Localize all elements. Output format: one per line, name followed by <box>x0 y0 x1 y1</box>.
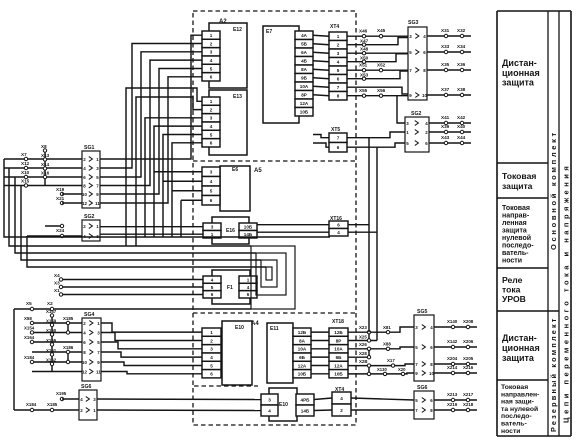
connector SG2 (right) <box>405 111 429 152</box>
svg-text:10: 10 <box>82 192 87 197</box>
svg-text:9Б: 9Б <box>301 76 308 81</box>
wires E7 to XT5 <box>313 135 329 148</box>
svg-text:Х45: Х45 <box>377 28 386 33</box>
svg-text:ная защи-: ная защи- <box>501 399 534 406</box>
vertical bus wire XT5/XT16 to SG5 row1 <box>368 138 370 333</box>
svg-text:Х52: Х52 <box>377 63 386 68</box>
svg-text:Х38: Х38 <box>457 87 466 92</box>
svg-text:Х16: Х16 <box>41 171 50 176</box>
wire branch X55 down to SG2 <box>397 96 405 123</box>
svg-text:ХТ5: ХТ5 <box>331 127 340 133</box>
left vertical wire X5 down to SG6 <box>13 309 15 410</box>
svg-text:Х24: Х24 <box>56 228 65 233</box>
svg-text:6: 6 <box>337 77 340 82</box>
svg-text:Х33: Х33 <box>441 44 450 49</box>
relay F1 <box>212 270 250 304</box>
svg-text:10: 10 <box>429 371 434 376</box>
svg-text:3: 3 <box>210 347 213 352</box>
table text: zero-sequence directional protection (reserve) <box>501 384 539 435</box>
wires XT4 to SG3 with terminals X45..X56 <box>347 28 408 97</box>
svg-text:Х214: Х214 <box>447 365 458 370</box>
svg-text:6: 6 <box>210 198 213 203</box>
svg-text:8Р: 8Р <box>336 338 342 343</box>
input wires to F1 terminals X4 X3 X1 <box>54 273 203 296</box>
terminal block XT4 (bottom) <box>335 387 344 393</box>
svg-text:10А: 10А <box>334 347 343 352</box>
svg-text:2: 2 <box>210 41 213 46</box>
svg-text:Е13: Е13 <box>233 94 242 100</box>
wires SG6 to external terminals X217 X218 <box>434 392 477 412</box>
svg-text:Х184: Х184 <box>26 402 37 407</box>
svg-text:Х7: Х7 <box>21 152 27 157</box>
svg-text:Х2: Х2 <box>47 301 53 306</box>
svg-text:Е11: Е11 <box>270 326 279 332</box>
right cells of E10 bottom <box>296 394 314 416</box>
svg-text:Х55: Х55 <box>359 88 368 93</box>
svg-text:1: 1 <box>210 330 213 335</box>
svg-text:Х140: Х140 <box>447 319 458 324</box>
svg-text:Е6: Е6 <box>232 167 238 173</box>
wires XT18 to SG5 with terminals <box>348 325 414 376</box>
svg-text:2: 2 <box>340 408 343 413</box>
module E10 (bottom) <box>269 388 297 421</box>
wire E16 to XT16 row1 <box>257 224 329 226</box>
svg-text:Е12: Е12 <box>233 27 242 33</box>
svg-text:Резервный комплект: Резервный комплект <box>549 316 558 432</box>
svg-text:4: 4 <box>210 58 213 63</box>
svg-text:Х47: Х47 <box>360 39 369 44</box>
module E6 <box>220 166 250 211</box>
svg-text:4: 4 <box>340 396 343 401</box>
wire SG6 left to E10 bottom row2 <box>97 409 261 412</box>
cells of XT4 bottom <box>332 392 351 416</box>
svg-text:5Б: 5Б <box>301 42 308 47</box>
svg-text:Х58: Х58 <box>24 316 32 321</box>
connector SG6 (right) <box>414 385 434 419</box>
svg-text:Х23: Х23 <box>359 325 367 330</box>
vertical bus wire XT5/XT16 to SG5 row2 <box>376 147 378 340</box>
svg-text:12А: 12А <box>334 363 343 368</box>
svg-text:SG5: SG5 <box>417 309 427 315</box>
wire SG6 left to E10 bottom row1 <box>97 398 261 401</box>
connector SG3 <box>408 20 427 100</box>
svg-text:Х40: Х40 <box>457 124 466 129</box>
svg-text:3: 3 <box>210 170 213 175</box>
input wires to SG4 with terminals X58..X162 <box>24 309 82 372</box>
svg-text:3: 3 <box>210 116 213 121</box>
svg-text:нулевой: нулевой <box>502 234 531 242</box>
svg-text:Х204: Х204 <box>447 356 458 361</box>
svg-text:Х46: Х46 <box>359 29 368 34</box>
svg-text:4РБ: 4РБ <box>301 397 311 402</box>
svg-text:Х81: Х81 <box>383 325 391 330</box>
svg-text:ватель-: ватель- <box>502 250 529 257</box>
svg-text:6: 6 <box>337 223 340 228</box>
svg-text:защита: защита <box>502 353 535 363</box>
input wires to SG1 with terminals X7..X16 <box>4 144 82 187</box>
svg-text:5: 5 <box>210 363 213 368</box>
svg-text:11: 11 <box>96 369 101 374</box>
svg-text:Х14: Х14 <box>41 162 50 167</box>
svg-text:1: 1 <box>247 278 250 283</box>
svg-text:2: 2 <box>210 107 213 112</box>
svg-text:Х13: Х13 <box>41 153 50 158</box>
svg-text:1: 1 <box>210 33 213 38</box>
svg-text:6Б: 6Б <box>299 355 306 360</box>
svg-text:4: 4 <box>337 60 340 65</box>
svg-text:4: 4 <box>247 285 250 290</box>
svg-text:Х48: Х48 <box>360 47 369 52</box>
nested loop wires around F1 <box>251 246 295 309</box>
svg-text:Х50: Х50 <box>360 56 369 61</box>
svg-text:Х184: Х184 <box>24 355 35 360</box>
left loop wire 5 <box>27 236 266 267</box>
cabinet enclosure (dashed) <box>193 11 356 425</box>
table text: distance protection (main) <box>502 58 540 88</box>
svg-text:Х35: Х35 <box>441 62 450 67</box>
svg-text:Х44: Х44 <box>457 135 466 140</box>
svg-text:защита: защита <box>502 78 535 88</box>
terminal stack of E10 <box>202 328 221 378</box>
svg-text:Е10: Е10 <box>235 325 244 331</box>
left cells of E10 bottom <box>261 394 278 416</box>
connector SG1 <box>82 145 100 208</box>
wire bundle SG1 to E12 <box>100 35 202 203</box>
svg-text:Х12: Х12 <box>21 161 30 166</box>
svg-text:SG2: SG2 <box>84 214 94 220</box>
connector SG4 <box>82 312 101 381</box>
svg-text:Х51: Х51 <box>359 63 368 68</box>
module E12 <box>209 23 247 88</box>
table text: current protection <box>502 171 536 191</box>
svg-text:1: 1 <box>210 99 213 104</box>
svg-text:Х3: Х3 <box>54 281 60 286</box>
svg-text:10А: 10А <box>300 84 309 89</box>
svg-text:5: 5 <box>210 189 213 194</box>
terminal block XT16 <box>330 216 342 222</box>
table text: zero-sequence directional current protection (main) <box>502 205 534 265</box>
svg-text:Токовая: Токовая <box>502 171 536 181</box>
svg-text:8Р: 8Р <box>301 93 307 98</box>
svg-text:Х19: Х19 <box>56 187 65 192</box>
svg-text:4: 4 <box>211 278 214 283</box>
svg-text:12Б: 12Б <box>334 330 343 335</box>
svg-text:Х37: Х37 <box>441 87 450 92</box>
svg-text:3: 3 <box>211 225 214 230</box>
svg-text:Х159: Х159 <box>46 319 57 324</box>
svg-text:ности: ности <box>501 428 520 435</box>
table text: distance protection (reserve) <box>502 333 540 363</box>
svg-text:5: 5 <box>210 132 213 137</box>
wires SG2 to external terminals X39..X44 <box>429 115 471 145</box>
svg-text:4: 4 <box>210 355 213 360</box>
input wire to SG2 left with terminal X24 <box>27 224 82 237</box>
svg-text:Токовая: Токовая <box>501 384 528 391</box>
svg-text:ватель-: ватель- <box>501 421 527 428</box>
svg-text:12: 12 <box>82 369 87 374</box>
svg-text:6: 6 <box>210 372 213 377</box>
svg-text:Х10: Х10 <box>21 170 30 175</box>
svg-text:Х15: Х15 <box>21 179 30 184</box>
terminal stack of E11 <box>293 328 311 378</box>
svg-text:Е16: Е16 <box>226 228 235 234</box>
svg-text:ленная: ленная <box>502 220 527 227</box>
svg-text:Основной комплект: Основной комплект <box>549 130 558 250</box>
svg-text:3: 3 <box>337 51 340 56</box>
svg-text:7: 7 <box>337 85 340 90</box>
svg-text:направ-: направ- <box>502 213 530 220</box>
svg-text:Х26: Х26 <box>359 342 367 347</box>
svg-text:12: 12 <box>82 201 87 206</box>
svg-text:Х219: Х219 <box>447 402 458 407</box>
svg-text:6: 6 <box>211 292 214 297</box>
svg-text:6: 6 <box>337 145 340 150</box>
right cells of E16 <box>239 223 257 238</box>
svg-text:Х160: Х160 <box>46 328 57 333</box>
svg-text:10: 10 <box>82 360 87 365</box>
left cells of F1 <box>203 276 221 298</box>
wire XT5-6 to SG2 <box>347 143 405 147</box>
left loop wire 3 <box>15 177 256 253</box>
svg-text:4Б: 4Б <box>301 59 308 64</box>
svg-text:Х216: Х216 <box>463 365 474 370</box>
svg-text:Х2В: Х2В <box>359 359 368 364</box>
svg-text:последо-: последо- <box>502 243 534 250</box>
svg-text:Х8: Х8 <box>41 144 47 149</box>
svg-text:1: 1 <box>337 34 340 39</box>
inner dashed divider of A4 <box>194 385 258 387</box>
input wire terminals X184 X185 to SG6 <box>14 391 79 412</box>
svg-text:5: 5 <box>210 66 213 71</box>
svg-text:Токовая: Токовая <box>502 205 530 212</box>
svg-text:Х130: Х130 <box>377 367 387 372</box>
terminal block XT4 (top) <box>330 24 339 30</box>
svg-text:4: 4 <box>210 124 213 129</box>
cells of XT18 <box>329 328 348 378</box>
svg-text:Х4: Х4 <box>54 273 60 278</box>
svg-text:10А: 10А <box>298 347 307 352</box>
svg-text:Цепи переменного тока и напряж: Цепи переменного тока и напряжения <box>562 163 571 423</box>
svg-text:6: 6 <box>210 75 213 80</box>
wire XT16 row1 to vertical bus <box>348 224 369 226</box>
svg-text:Х21: Х21 <box>56 196 65 201</box>
svg-text:А2: А2 <box>219 19 227 25</box>
jumper terminals right of SG4 labels X185 X186 <box>63 316 74 364</box>
svg-text:Х41: Х41 <box>441 115 450 120</box>
left loop wire 1 (SG1 row1 to F1 area) <box>4 159 330 237</box>
connector SG6 (left) <box>79 384 97 420</box>
wire XT16 row2 to vertical bus <box>348 231 377 233</box>
classification table <box>497 11 571 436</box>
cells of XT4 top <box>329 32 347 100</box>
svg-text:Х165: Х165 <box>46 338 57 343</box>
svg-text:Х213: Х213 <box>447 392 458 397</box>
wire SG2 left to E16 row1 <box>100 226 203 228</box>
svg-text:Х28: Х28 <box>359 351 367 356</box>
svg-text:Х161: Х161 <box>46 348 57 353</box>
svg-text:SG6: SG6 <box>81 384 91 390</box>
svg-text:УРОВ: УРОВ <box>502 294 526 304</box>
svg-text:8А: 8А <box>299 338 306 343</box>
svg-text:7: 7 <box>337 136 340 141</box>
svg-text:12А: 12А <box>300 101 309 106</box>
svg-text:направлен-: направлен- <box>501 391 539 398</box>
svg-text:SG4: SG4 <box>84 312 94 318</box>
svg-text:ционная: ционная <box>502 343 540 353</box>
svg-text:защита: защита <box>502 228 527 235</box>
svg-text:SG2: SG2 <box>411 111 421 117</box>
svg-text:Х31: Х31 <box>441 28 450 33</box>
wire XT5-7 to SG2 <box>347 132 405 138</box>
right cells of F1 <box>239 276 257 298</box>
svg-text:SG6: SG6 <box>417 385 427 391</box>
svg-text:Х186: Х186 <box>63 345 74 350</box>
module E10 <box>222 321 252 385</box>
svg-text:Х25: Х25 <box>359 335 367 340</box>
svg-text:Х195: Х195 <box>56 391 67 396</box>
svg-text:Х206: Х206 <box>463 339 474 344</box>
svg-text:Х43: Х43 <box>441 135 450 140</box>
stub terminals SG1 rows 5-6 <box>56 187 82 205</box>
wires SG3 to external terminals X31..X38 <box>427 28 471 97</box>
svg-text:8А: 8А <box>301 67 308 72</box>
connector SG2 (left) <box>82 214 100 241</box>
svg-text:Х185: Х185 <box>47 402 58 407</box>
terminal stack of E12 <box>202 31 220 81</box>
terminal block XT5 <box>331 127 340 133</box>
module E11 <box>267 323 293 383</box>
wires E10 bottom to XT4 bottom <box>314 398 332 411</box>
wires E11 to XT18 <box>311 332 329 374</box>
svg-text:Х53: Х53 <box>360 72 369 77</box>
svg-text:Х36: Х36 <box>457 62 466 67</box>
svg-text:Х32: Х32 <box>457 28 466 33</box>
wire SG2 left to E16 row2 <box>100 233 203 235</box>
svg-text:6А: 6А <box>301 50 308 55</box>
svg-text:10Б: 10Б <box>298 372 307 377</box>
svg-text:ности: ности <box>502 258 522 265</box>
svg-text:4А: 4А <box>301 33 308 38</box>
left loop wire 4 <box>21 186 261 261</box>
wires SG4 to E10 stack <box>101 323 202 374</box>
svg-text:10: 10 <box>422 93 427 98</box>
table text: breaker failure current relay <box>502 275 526 304</box>
svg-text:ХТ18: ХТ18 <box>332 319 344 325</box>
svg-text:5: 5 <box>337 68 340 73</box>
svg-text:последо-: последо- <box>501 413 532 420</box>
module E13 <box>209 90 247 155</box>
svg-text:Х217: Х217 <box>463 392 474 397</box>
terminal stack of E7 <box>295 31 313 116</box>
svg-text:6Б: 6Б <box>336 355 343 360</box>
wire bundle to E13 <box>126 88 202 246</box>
svg-text:10Б: 10Б <box>244 225 253 230</box>
wires SG5 to external terminals X140..X216 <box>434 319 477 375</box>
cells of XT5 <box>329 133 347 152</box>
svg-text:Е10: Е10 <box>279 402 288 408</box>
svg-text:14Б: 14Б <box>301 408 310 413</box>
svg-text:2: 2 <box>210 338 213 343</box>
svg-text:Х1: Х1 <box>54 288 60 293</box>
svg-text:6: 6 <box>210 141 213 146</box>
svg-text:Х205: Х205 <box>463 356 474 361</box>
svg-text:3: 3 <box>210 50 213 55</box>
svg-text:Дистан-: Дистан- <box>502 58 537 68</box>
left loop wire 2 <box>9 168 251 246</box>
wires E7 to XT4 <box>313 35 329 96</box>
terminal block XT18 <box>332 319 344 325</box>
svg-text:12Б: 12Б <box>298 330 307 335</box>
svg-text:та нулевой: та нулевой <box>501 405 538 413</box>
wires XT4 bottom to SG6 <box>351 398 414 410</box>
svg-text:SG3: SG3 <box>408 20 418 26</box>
svg-text:8: 8 <box>337 94 340 99</box>
svg-text:Дистан-: Дистан- <box>502 333 537 343</box>
svg-text:4: 4 <box>268 408 271 413</box>
wires to E6 <box>154 172 202 237</box>
svg-text:10Б: 10Б <box>300 110 309 115</box>
terminal stack of E6 <box>202 167 220 205</box>
wire E16 to XT16 row2 <box>257 231 329 233</box>
svg-text:Х208: Х208 <box>463 319 474 324</box>
svg-text:Х42: Х42 <box>457 115 466 120</box>
svg-text:защита: защита <box>502 181 533 191</box>
left cells of E16 <box>203 223 221 238</box>
svg-text:ционная: ционная <box>502 68 540 78</box>
svg-text:Х88: Х88 <box>383 342 391 347</box>
svg-text:SG1: SG1 <box>84 145 94 151</box>
svg-text:Х185: Х185 <box>63 316 74 321</box>
svg-text:11: 11 <box>95 201 100 206</box>
svg-text:5: 5 <box>211 285 214 290</box>
svg-text:10Б: 10Б <box>334 372 343 377</box>
module E16 <box>212 217 249 244</box>
svg-text:F1: F1 <box>227 285 233 291</box>
svg-text:Х142: Х142 <box>447 339 458 344</box>
svg-text:ХТ4: ХТ4 <box>330 24 339 30</box>
svg-text:2: 2 <box>337 43 340 48</box>
svg-text:4: 4 <box>210 179 213 184</box>
svg-text:А5: А5 <box>254 168 262 174</box>
svg-text:Х56: Х56 <box>377 88 386 93</box>
svg-text:Е7: Е7 <box>266 29 272 35</box>
svg-text:Х154: Х154 <box>24 326 35 331</box>
svg-text:Х218: Х218 <box>463 402 474 407</box>
svg-text:Х164: Х164 <box>24 335 35 340</box>
svg-text:Х17: Х17 <box>387 358 395 363</box>
connector SG5 <box>414 309 434 381</box>
terminal stack of E13 <box>202 97 220 147</box>
svg-text:12А: 12А <box>298 363 307 368</box>
svg-text:6: 6 <box>247 292 250 297</box>
module E7 <box>263 26 299 123</box>
svg-text:4: 4 <box>337 230 340 235</box>
svg-text:Х39: Х39 <box>441 124 450 129</box>
input wire X5 X1 to nested loop <box>14 301 251 311</box>
svg-text:3: 3 <box>268 397 271 402</box>
svg-text:Х5: Х5 <box>26 301 32 306</box>
svg-text:Х20: Х20 <box>398 367 406 372</box>
cells of XT16 <box>329 221 348 236</box>
svg-text:Х34: Х34 <box>457 44 466 49</box>
svg-text:Х162: Х162 <box>46 358 57 363</box>
